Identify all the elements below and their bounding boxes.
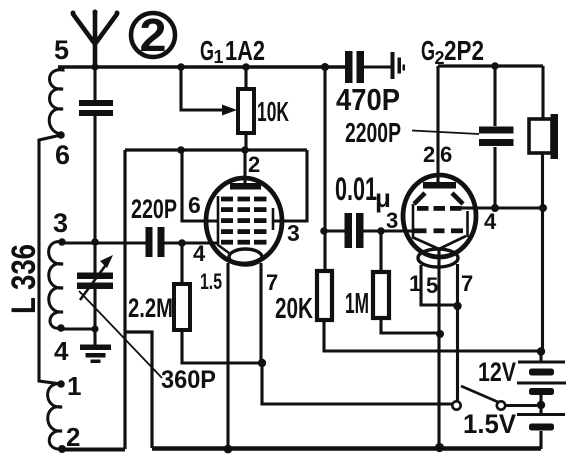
svg-text:1A2: 1A2 bbox=[225, 35, 265, 66]
tube V2 2P2 envelope bbox=[403, 175, 476, 257]
wire tap3 to 220P to pin4 bbox=[62, 241, 218, 244]
svg-text:6: 6 bbox=[440, 142, 452, 167]
wire 20K bottom lead to battery bbox=[324, 320, 541, 351]
V1 anode bar bbox=[230, 183, 261, 190]
node var-cap top junction bbox=[91, 238, 99, 246]
capacitor 0.01u bbox=[345, 213, 364, 248]
V2 inner connector left bbox=[412, 204, 415, 237]
svg-text:3: 3 bbox=[287, 220, 300, 246]
coil L336 winding section 3-4 bbox=[49, 242, 63, 329]
capacitor 220P bbox=[146, 227, 165, 257]
wire 1M top lead bbox=[379, 231, 382, 272]
node wiper branch junction bbox=[177, 63, 185, 71]
wire jog x125 to x152 bbox=[125, 332, 152, 448]
wire 10K top lead bbox=[244, 67, 247, 89]
svg-text:3: 3 bbox=[53, 208, 68, 238]
wire 12V bottom stem bbox=[539, 395, 542, 405]
node 2200P bottom junction bbox=[491, 204, 499, 212]
label G2 2P2 bbox=[421, 35, 484, 68]
wire pin7 node to switch bbox=[262, 363, 452, 404]
circled figure number 2 bbox=[131, 9, 175, 61]
svg-text:3: 3 bbox=[386, 208, 398, 233]
V2 inner connector right bbox=[466, 211, 469, 237]
node speaker line junction bbox=[539, 204, 547, 212]
wire V1 filament lead 1.5 bbox=[226, 263, 229, 449]
svg-text:L 336: L 336 bbox=[5, 244, 43, 314]
node coupling branch junction bbox=[321, 63, 329, 71]
capacitor 360P variable bbox=[77, 255, 113, 300]
ground bbox=[80, 345, 111, 364]
wiper arrowhead bbox=[222, 105, 237, 116]
wire V1 pin7 lead bbox=[259, 263, 262, 363]
wire bracket tap6 to tap1 bbox=[39, 135, 61, 384]
wire antenna lead middle bbox=[93, 116, 96, 273]
V2 filament V bbox=[412, 236, 466, 249]
svg-text:4: 4 bbox=[193, 241, 206, 266]
svg-text:5: 5 bbox=[54, 35, 69, 65]
svg-text:360P: 360P bbox=[161, 366, 216, 394]
node coil tap 3 bbox=[58, 238, 66, 246]
wire plate bus x325 bbox=[323, 67, 326, 271]
wire var cap to ground bbox=[93, 289, 96, 345]
wire bottom-left rail bbox=[62, 448, 125, 452]
wire pin6 branch bbox=[182, 150, 218, 221]
wire 1M bottom lead bbox=[381, 318, 440, 333]
V2 filament ellipse bbox=[418, 249, 458, 267]
speaker LS bbox=[529, 114, 558, 159]
svg-text:G: G bbox=[200, 35, 214, 66]
svg-text:7: 7 bbox=[266, 270, 278, 295]
svg-text:12V: 12V bbox=[478, 357, 516, 387]
svg-text:2P2: 2P2 bbox=[444, 35, 484, 66]
svg-text:1: 1 bbox=[67, 371, 81, 401]
svg-text:1.5: 1.5 bbox=[200, 269, 222, 294]
svg-text:1M: 1M bbox=[345, 288, 369, 320]
leader line 360P bbox=[79, 291, 162, 378]
svg-text:220P: 220P bbox=[131, 194, 177, 224]
node 1M to filament junction bbox=[436, 330, 444, 338]
node filament/pin7 junction bbox=[453, 302, 461, 310]
node coil tap 1 bbox=[57, 380, 65, 388]
wire pin3 branch bbox=[273, 150, 307, 221]
V1 grid dashes bbox=[221, 197, 267, 245]
resistor R1 10K bbox=[238, 89, 254, 133]
wire 0.01 coupling left bbox=[324, 229, 345, 232]
svg-text:1: 1 bbox=[214, 47, 224, 67]
node junction y150 left bbox=[177, 146, 185, 154]
leader line 2200P bbox=[412, 131, 479, 135]
wire wiper arm of 10K bbox=[181, 67, 224, 110]
svg-text:1.5V: 1.5V bbox=[463, 409, 516, 439]
wire antenna lead upper bbox=[93, 67, 96, 100]
node 2.2M top junction bbox=[178, 239, 186, 247]
wire V2 filament left lead bbox=[421, 265, 457, 305]
node tap4/ground junction bbox=[91, 325, 98, 332]
V1 anode lead pin2 bbox=[243, 150, 246, 183]
node filament lead bottom rail junction bbox=[224, 445, 233, 454]
wire V2 screen exit bbox=[461, 206, 477, 209]
node antenna/top-rail junction bbox=[91, 63, 98, 70]
svg-text:2: 2 bbox=[140, 9, 167, 61]
node center lead bottom junction bbox=[435, 443, 444, 452]
svg-text:470P: 470P bbox=[336, 82, 400, 117]
antenna bbox=[71, 10, 120, 68]
node pin7/2.2M junction bbox=[258, 359, 266, 367]
node 2200P top junction bbox=[491, 62, 499, 70]
svg-text:2200P: 2200P bbox=[345, 117, 401, 148]
wire 2.2M top lead bbox=[180, 243, 183, 284]
earphone jack symbol bbox=[391, 52, 406, 79]
wire G2 top segment bbox=[438, 64, 543, 67]
V2 beam plate left bbox=[414, 193, 425, 204]
wire screen bus y208 bbox=[477, 206, 543, 209]
wire 2200P top lead bbox=[493, 66, 496, 126]
wire left ground drop x125 bbox=[123, 150, 126, 449]
coil L336 winding section 1-2 bbox=[48, 384, 62, 449]
wire battery top stem bbox=[539, 351, 542, 361]
battery 1.5V bbox=[517, 413, 565, 431]
node battery mid junction bbox=[537, 401, 545, 409]
capacitor 470P bbox=[345, 51, 364, 83]
wire top rail bbox=[58, 65, 345, 68]
svg-text:1: 1 bbox=[409, 271, 421, 296]
wire 2200P bottom lead bbox=[493, 147, 496, 208]
coil L336 winding section 5-6 bbox=[49, 67, 63, 134]
V2 anode bar bbox=[423, 182, 456, 189]
label G1 1A2 bbox=[200, 35, 265, 67]
wire main bottom rail bbox=[152, 446, 541, 451]
node coil tap 4 bbox=[57, 324, 65, 332]
wire V2 anode lead bbox=[436, 66, 439, 182]
svg-text:G: G bbox=[421, 35, 435, 66]
V2 filament center lead bbox=[437, 248, 440, 447]
node coil tap 6 bbox=[57, 131, 65, 139]
svg-text:0.01: 0.01 bbox=[335, 171, 377, 207]
V1 inner grid connector left bbox=[218, 196, 229, 253]
capacitor antenna series bbox=[79, 100, 113, 116]
node coil bottom bbox=[58, 445, 66, 453]
wire y150 bus bbox=[125, 148, 307, 151]
V1 filament ellipse bbox=[229, 249, 262, 265]
V2 beam plate right bbox=[452, 193, 463, 204]
battery 12V bbox=[517, 361, 566, 396]
svg-text:4: 4 bbox=[484, 209, 497, 234]
wire speaker top lead bbox=[541, 66, 544, 119]
svg-text:20K: 20K bbox=[275, 293, 313, 325]
label 0.01u bbox=[335, 171, 391, 213]
wire 0.01 coupling right bbox=[363, 229, 404, 232]
node 10K top junction bbox=[242, 63, 250, 71]
svg-text:10K: 10K bbox=[257, 96, 289, 127]
wire 470P right lead bbox=[364, 65, 391, 68]
resistor R2 2.2M bbox=[174, 284, 190, 330]
wire 2.2M bottom lead bbox=[182, 330, 262, 363]
capacitor 2200P bbox=[479, 127, 514, 147]
wire 1.5V bottom stem bbox=[539, 405, 542, 449]
V1 inner grid connector right bbox=[272, 208, 275, 230]
node junction y150 anode bbox=[241, 146, 249, 154]
svg-text:6: 6 bbox=[188, 192, 201, 218]
svg-text:2.2M: 2.2M bbox=[128, 293, 173, 323]
wire V2 grid entry bbox=[404, 229, 414, 232]
svg-text:6: 6 bbox=[55, 140, 70, 170]
resistor R3 20K bbox=[317, 271, 332, 320]
svg-text:7: 7 bbox=[461, 271, 473, 296]
svg-text:4: 4 bbox=[54, 336, 69, 366]
svg-text:2: 2 bbox=[248, 152, 260, 177]
wire V2 filament right lead bbox=[456, 264, 459, 401]
switch S1 bbox=[452, 386, 537, 410]
tube V1 1A2 envelope bbox=[206, 178, 282, 264]
wire 10K bottom lead bbox=[244, 133, 247, 150]
node battery top junction bbox=[537, 347, 545, 355]
node 0.01 left junction bbox=[320, 227, 328, 235]
svg-text:2: 2 bbox=[423, 142, 435, 167]
svg-text:5: 5 bbox=[426, 273, 438, 298]
wire speaker bottom lead bbox=[541, 153, 544, 351]
V2 screen grid dashes bbox=[414, 206, 463, 233]
wire tap4 to ground stem bbox=[61, 327, 95, 330]
resistor R4 1M bbox=[373, 272, 389, 318]
node 1M top junction bbox=[377, 227, 385, 235]
